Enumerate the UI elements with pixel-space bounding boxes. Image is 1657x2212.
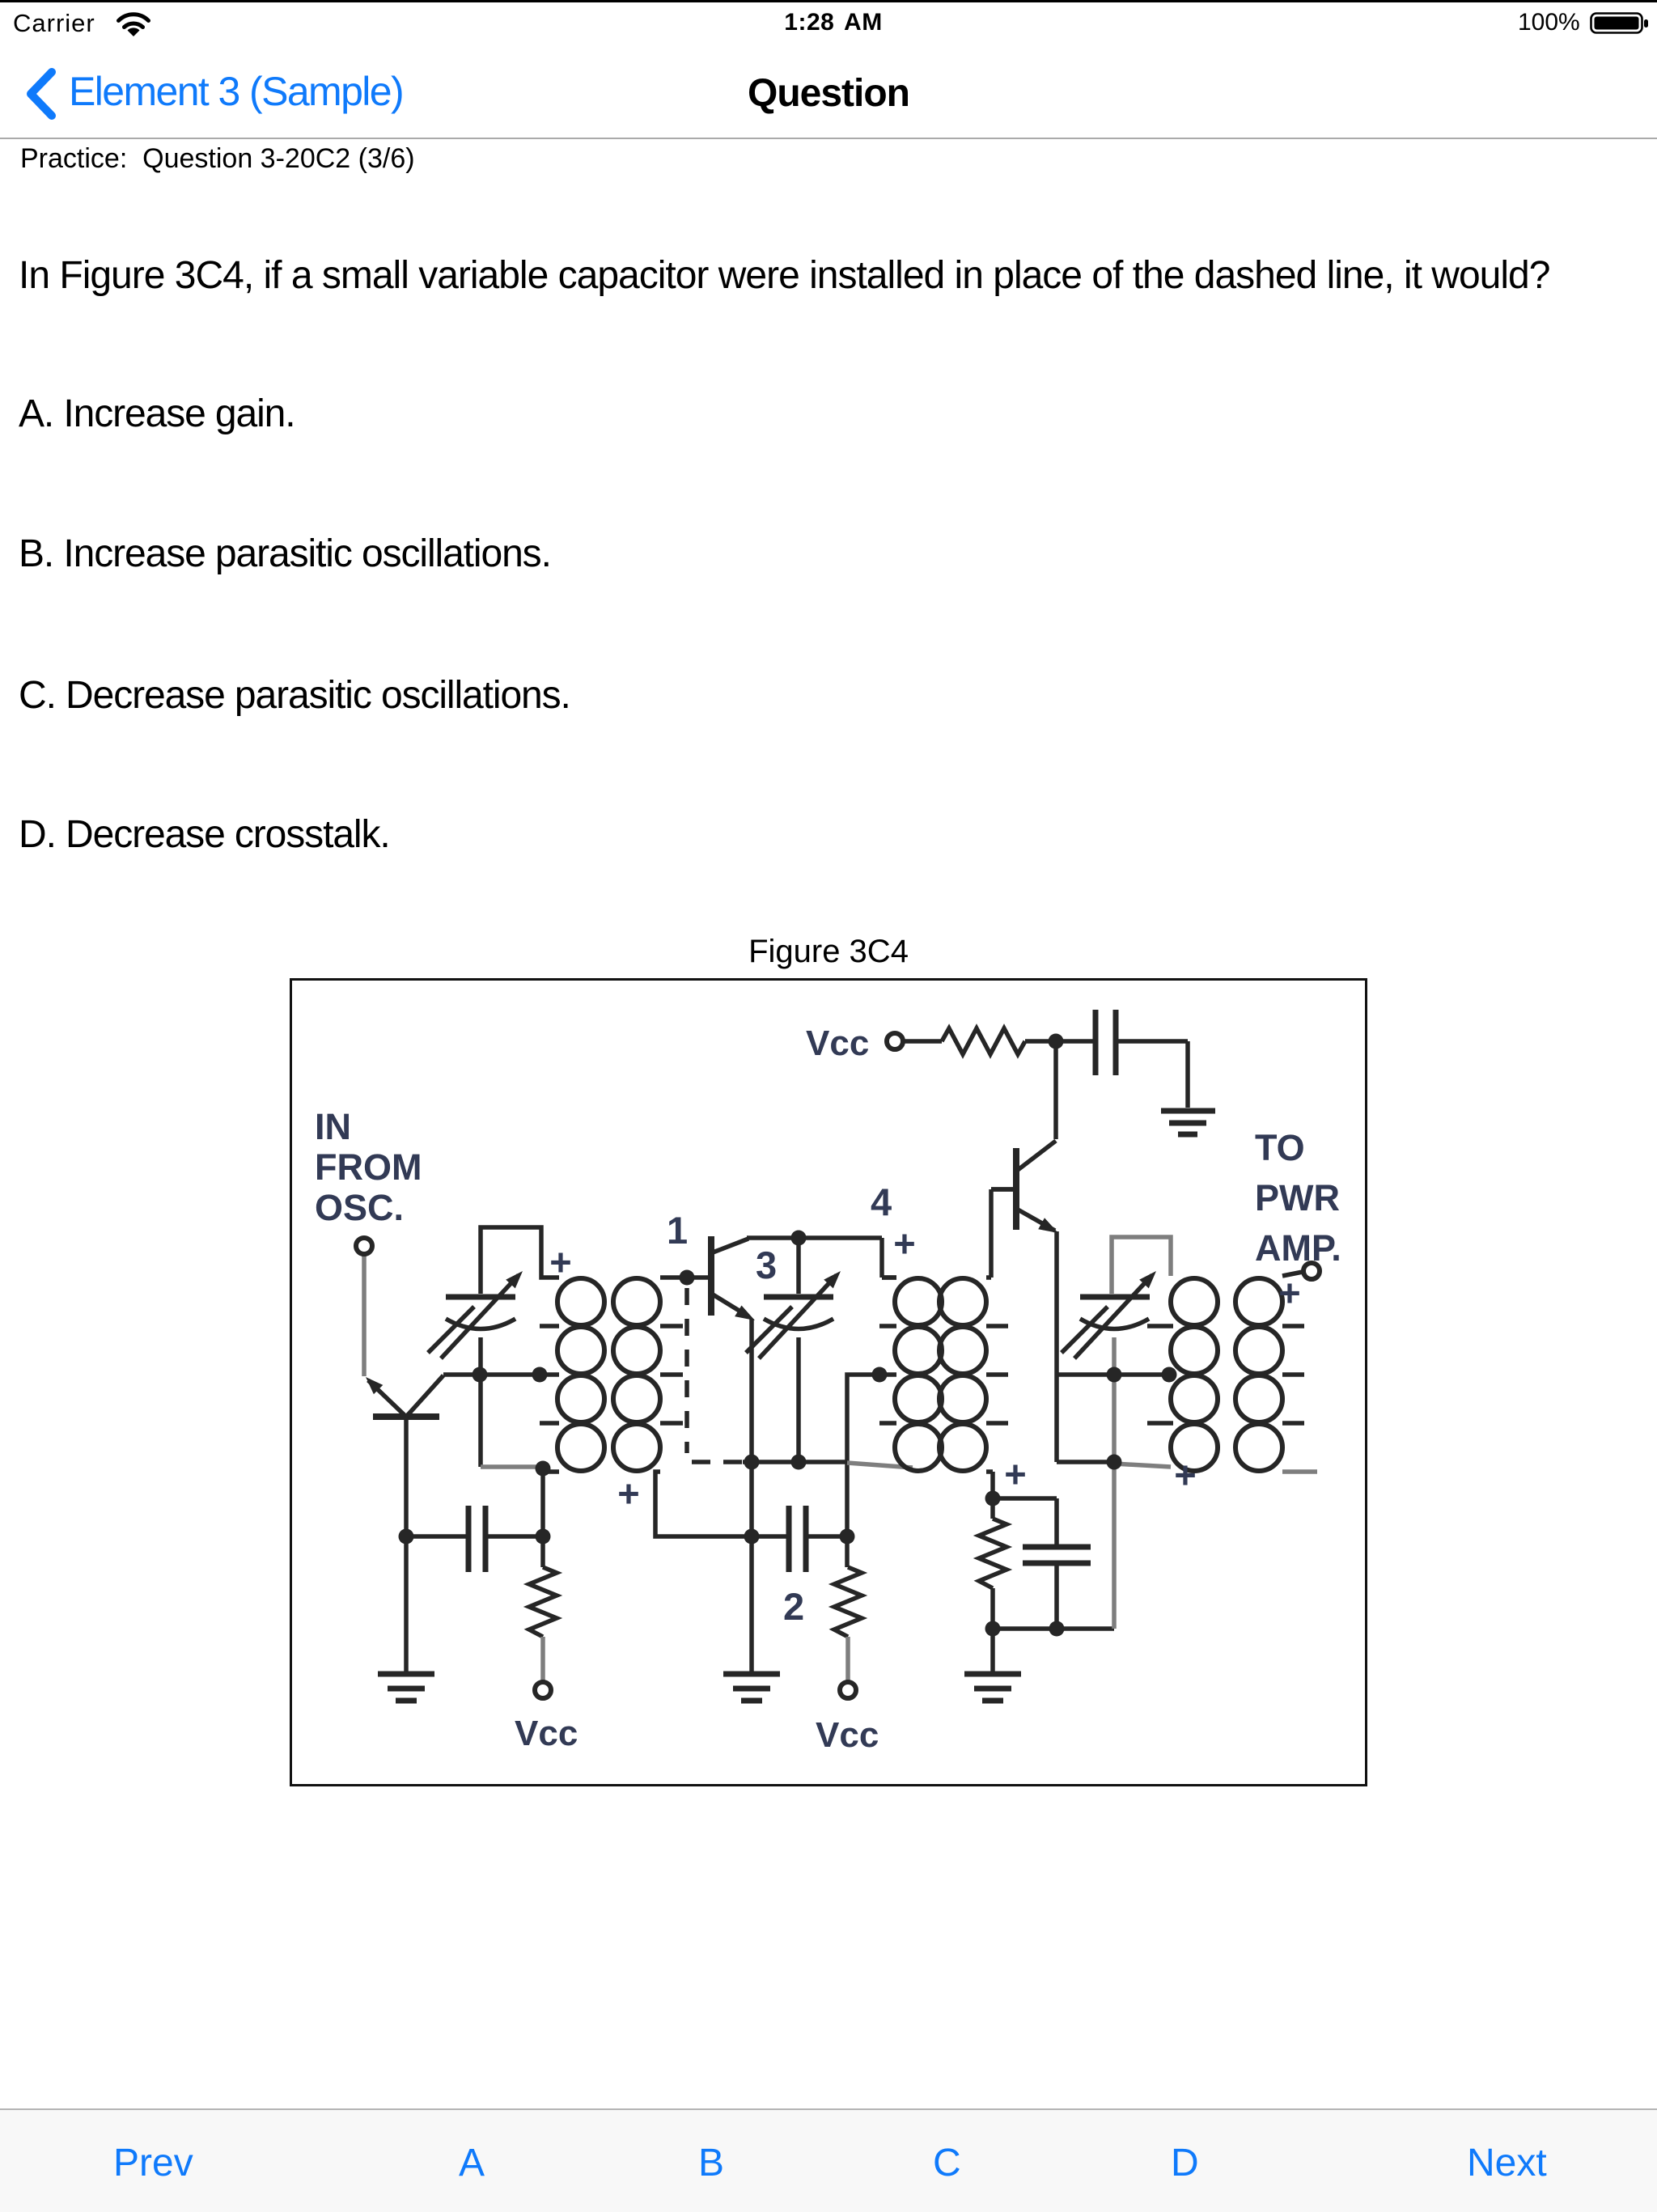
svg-text:3: 3 [756,1244,777,1286]
svg-text:PWR: PWR [1255,1177,1340,1218]
svg-text:IN: IN [315,1106,351,1147]
svg-text:+: + [549,1240,571,1283]
svg-text:+: + [617,1472,639,1515]
svg-text:+: + [1278,1271,1300,1314]
svg-text:+: + [1004,1452,1026,1495]
svg-text:2: 2 [783,1585,804,1628]
svg-text:AMP.: AMP. [1255,1227,1341,1269]
svg-text:FROM: FROM [315,1146,422,1188]
svg-text:Vcc: Vcc [816,1715,879,1755]
svg-text:Vcc: Vcc [515,1714,578,1753]
svg-text:TO: TO [1255,1127,1305,1168]
svg-text:OSC.: OSC. [315,1187,404,1228]
svg-text:+: + [893,1222,915,1265]
svg-text:4: 4 [871,1180,892,1223]
svg-text:Vcc: Vcc [806,1023,869,1063]
svg-text:1: 1 [667,1209,688,1252]
svg-text:+: + [1174,1453,1196,1496]
